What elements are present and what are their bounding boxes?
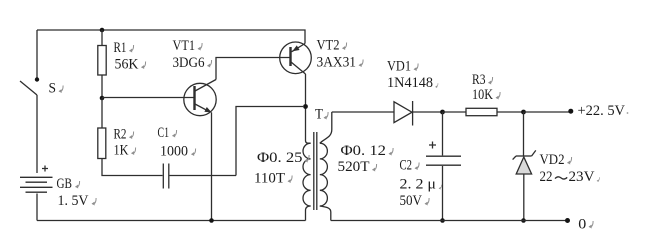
wire node to R3: [443, 111, 467, 113]
svg-text:R3: R3: [472, 72, 486, 88]
svg-text:3AX31: 3AX31: [317, 55, 357, 71]
svg-text:S: S: [49, 81, 57, 97]
wire secondary top to VD1 anode: [332, 111, 394, 113]
svg-text:T: T: [315, 107, 323, 123]
switch S: [20, 77, 63, 173]
svg-text:VT2: VT2: [317, 38, 340, 54]
wire VD1 cathode to C2 node: [413, 111, 443, 113]
wire bottom-left rail from battery to transformer primary: [37, 220, 306, 222]
svg-text:1. 5V: 1. 5V: [58, 193, 89, 209]
transformer secondary winding: [320, 112, 332, 221]
wire feedback riser up and over to VT2 collector node: [236, 107, 303, 176]
node junction feedback/collector: [303, 104, 308, 109]
resistor R3: [466, 72, 500, 116]
wire VD2 bottom lead: [523, 174, 525, 221]
transformer T label: [315, 107, 328, 123]
battery GB 1.5V: [20, 166, 96, 221]
wire from R1 to base node: [101, 75, 103, 98]
capacitor C1 1000: [158, 125, 196, 189]
label primary winding: [254, 150, 309, 187]
resistor R1: [98, 40, 146, 75]
capacitor C2 2.2u 50V: [400, 142, 462, 210]
transistor VT2 3AX31: [280, 38, 363, 75]
svg-text:520T: 520T: [338, 159, 370, 175]
svg-text:Φ0. 25: Φ0. 25: [257, 150, 303, 166]
svg-text:1K: 1K: [114, 143, 129, 159]
resistor R2: [98, 127, 136, 159]
svg-text:2. 2 μ: 2. 2 μ: [400, 177, 437, 193]
svg-text:VD2: VD2: [540, 152, 565, 168]
wire R3 to VD2 node: [497, 111, 524, 113]
zener diode VD2 22~23V: [513, 150, 600, 185]
node 0V output terminal: [565, 217, 593, 233]
wire top rail from battery branch to VT2 emitter corner: [37, 30, 305, 44]
svg-text:0: 0: [578, 217, 586, 233]
wire C2 bottom lead: [442, 166, 444, 221]
wire VT1 collector up and right to VT2 base: [216, 58, 290, 80]
node junction R3/VD2: [521, 110, 526, 115]
wire C2 top lead: [442, 112, 444, 155]
node junction emitter/bottom rail: [209, 218, 214, 223]
svg-text:10K: 10K: [472, 87, 493, 103]
node junction VD1/C2: [440, 110, 445, 115]
wire node to +22.5V terminal: [524, 111, 571, 113]
wire bottom-right rail from secondary to 0V terminal: [331, 220, 567, 222]
svg-text:R1: R1: [114, 40, 127, 56]
svg-text:50V: 50V: [400, 193, 423, 209]
svg-text:C1: C1: [158, 125, 170, 141]
svg-text:110T: 110T: [254, 171, 285, 187]
node junction top of R1: [100, 28, 105, 33]
wire VD2 top lead: [523, 112, 525, 156]
wire VT1 emitter down to bottom rail: [211, 113, 213, 221]
wire from node down to R2: [101, 98, 103, 128]
node junction C2/bottom rail: [440, 218, 445, 223]
wire from R2 to C1: [102, 159, 163, 176]
svg-text:23V: 23V: [569, 169, 595, 185]
transistor VT1 3DG6: [173, 38, 217, 116]
svg-text:22: 22: [540, 169, 553, 185]
wire left vertical from top rail to switch top contact: [36, 30, 38, 78]
svg-text:Φ0. 12: Φ0. 12: [341, 143, 387, 159]
wire base of VT1: [102, 97, 194, 99]
svg-text:1000: 1000: [160, 144, 188, 160]
label secondary winding: [338, 143, 394, 175]
node +22.5V output terminal: [568, 103, 628, 119]
svg-text:1N4148: 1N4148: [387, 75, 433, 91]
svg-text:VD1: VD1: [387, 59, 411, 75]
wire from top rail down to R1: [101, 30, 103, 46]
diode VD1 1N4148: [387, 59, 438, 126]
svg-text:56K: 56K: [115, 57, 139, 73]
svg-text:GB: GB: [57, 176, 73, 192]
transformer primary winding: [303, 141, 311, 221]
node junction VD2/bottom rail: [521, 218, 526, 223]
wire VT2 collector down to transformer primary: [305, 74, 307, 141]
transformer core: [314, 132, 317, 210]
svg-text:VT1: VT1: [173, 38, 196, 54]
svg-text:3DG6: 3DG6: [173, 55, 205, 71]
svg-text:+22. 5V: +22. 5V: [578, 103, 626, 119]
svg-text:R2: R2: [114, 127, 127, 143]
wire from C1 right to feedback riser: [170, 175, 237, 177]
svg-text:C2: C2: [400, 158, 413, 174]
node junction R1/R2/VT1-base: [100, 96, 105, 101]
